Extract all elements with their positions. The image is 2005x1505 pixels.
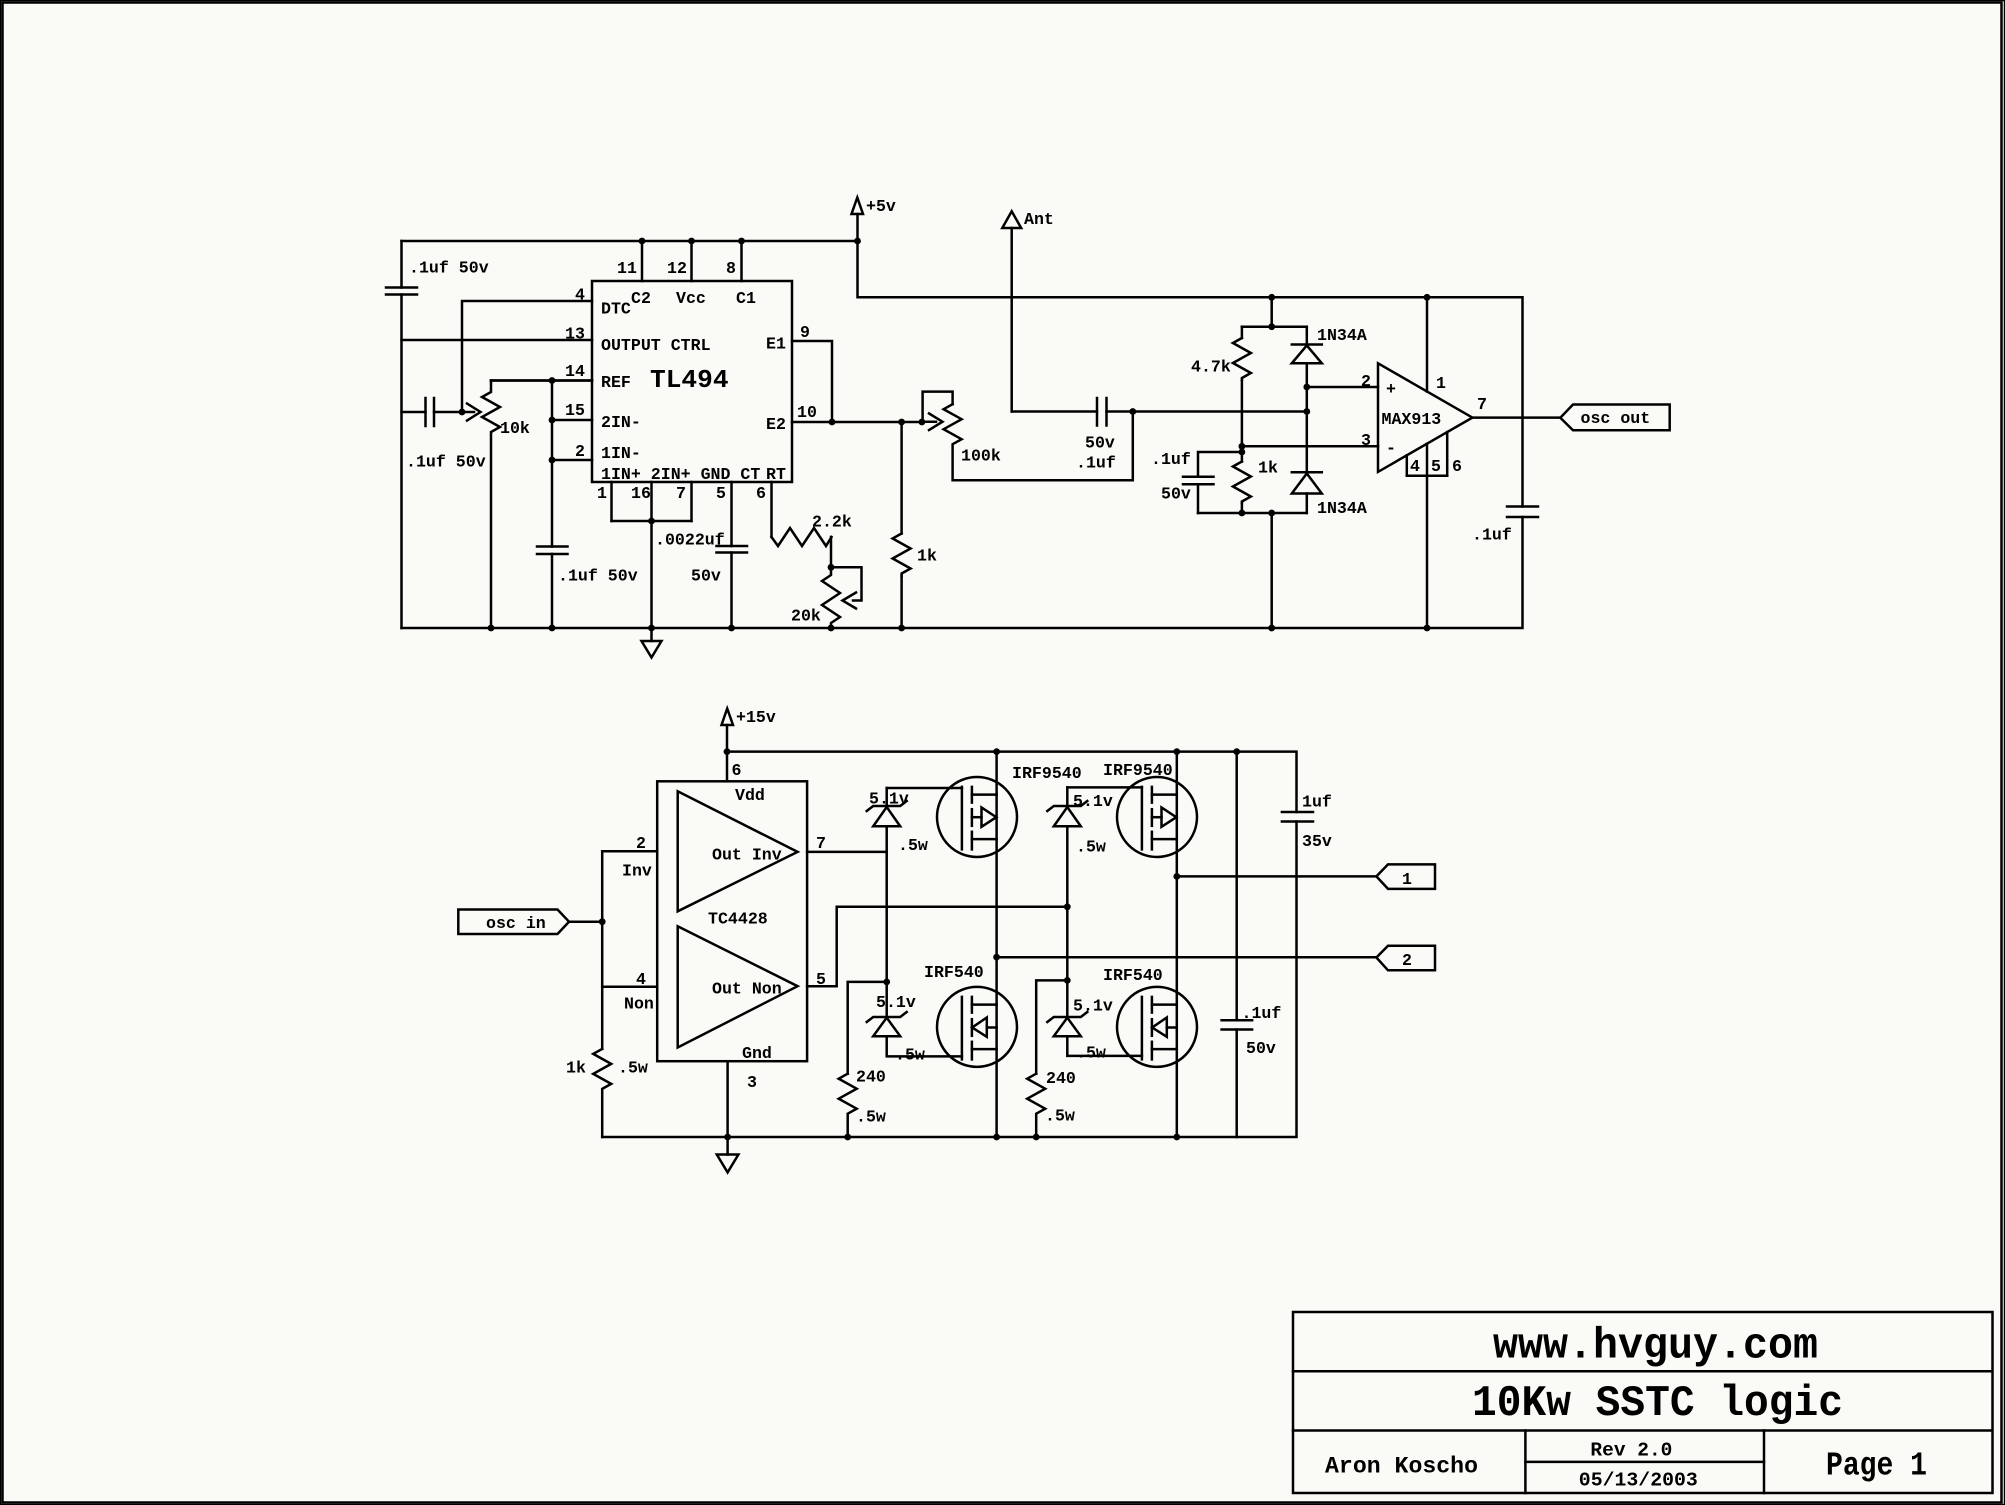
svg-text:Vcc: Vcc [676, 289, 706, 308]
svg-text:TC4428: TC4428 [708, 910, 768, 929]
svg-text:2: 2 [575, 442, 585, 461]
svg-text:50v: 50v [1085, 434, 1115, 453]
svg-text:1k: 1k [566, 1059, 586, 1078]
capacitor C8 1uf 35v [1282, 793, 1332, 852]
wire antenna line [1010, 228, 1013, 412]
svg-text:3: 3 [1361, 431, 1371, 450]
svg-text:.1uf 50v: .1uf 50v [409, 259, 489, 278]
op-amp U2 MAX913 comparator [1378, 363, 1472, 472]
svg-text:osc in: osc in [486, 914, 546, 933]
svg-text:4: 4 [636, 970, 646, 989]
svg-text:5.1v: 5.1v [1073, 792, 1113, 811]
svg-text:9: 9 [800, 323, 810, 342]
resistor R9 240 .5w [839, 982, 887, 1137]
svg-text:.0022uf: .0022uf [655, 531, 725, 550]
svg-text:4.7k: 4.7k [1191, 358, 1231, 377]
zener diode Z2 5.1v .5w [867, 982, 962, 1065]
svg-text:.5w: .5w [898, 836, 928, 855]
svg-text:13: 13 [565, 325, 585, 344]
svg-text:05/13/2003: 05/13/2003 [1579, 1470, 1698, 1492]
svg-text:1: 1 [597, 484, 607, 503]
svg-text:4: 4 [1410, 457, 1420, 476]
svg-text:5.1v: 5.1v [1073, 997, 1113, 1016]
svg-text:2IN-: 2IN- [601, 413, 641, 432]
pin 15 wire 2IN- [552, 419, 592, 422]
svg-text:+5v: +5v [866, 197, 896, 216]
svg-text:Vdd: Vdd [735, 786, 765, 805]
node REF column junctions [549, 377, 556, 384]
svg-text:+: + [1386, 380, 1396, 399]
svg-text:6: 6 [756, 484, 766, 503]
svg-text:Gnd: Gnd [742, 1044, 772, 1063]
svg-text:Rev 2.0: Rev 2.0 [1590, 1440, 1672, 1462]
svg-text:-: - [1386, 439, 1396, 458]
svg-text:1N34A: 1N34A [1317, 499, 1367, 518]
svg-text:15: 15 [565, 401, 585, 420]
svg-text:14: 14 [565, 362, 585, 381]
svg-text:4: 4 [575, 286, 585, 305]
wire left gate column [883, 788, 962, 985]
wire comparator input sub-rail [1242, 294, 1431, 330]
node osc out flag [1560, 405, 1669, 431]
pin 2 wire 1IN- [552, 459, 592, 462]
svg-text:5: 5 [716, 484, 726, 503]
svg-text:240: 240 [1046, 1069, 1076, 1088]
svg-text:3: 3 [747, 1073, 757, 1092]
pins 4,5,6 wires (gnd) [1407, 432, 1462, 628]
power +15v symbol [722, 708, 776, 752]
wire comparator + input (pin 2) [1307, 386, 1378, 389]
resistor R10 240 .5w [1027, 980, 1076, 1137]
capacitor C2 .1uf 50v (series to pot) [402, 398, 486, 472]
svg-text:Non: Non [624, 995, 654, 1014]
power +5v symbol [852, 197, 896, 241]
capacitor C5 .1uf 50v (series antenna) [1076, 398, 1307, 473]
svg-text:.5w: .5w [618, 1059, 648, 1078]
potentiometer R3 20k [791, 564, 862, 628]
transistor Q1 IRF9540 (upper left) [937, 764, 1082, 857]
IC U3 TC4428 box [657, 781, 807, 1063]
svg-text:5: 5 [1431, 457, 1441, 476]
transistor Q3 IRF9540 (upper right) [1103, 761, 1197, 857]
wire +5v top rail [402, 240, 858, 243]
pin 10 wire E2 [792, 421, 922, 424]
svg-text:E1: E1 [766, 335, 786, 354]
pin 11 stub [641, 241, 644, 281]
svg-text:.1uf 50v: .1uf 50v [558, 567, 638, 586]
pin 8 stub [740, 241, 743, 281]
resistor R6 4.7k [1191, 327, 1251, 447]
capacitor C1 .1uf 50v (top left) [386, 241, 489, 628]
svg-text:1IN-: 1IN- [601, 444, 641, 463]
pin 7 output wire [1472, 416, 1560, 419]
svg-text:1: 1 [1436, 374, 1446, 393]
wire bottom rail (top circuit) [402, 517, 1523, 628]
pin 4 wire Non [602, 986, 657, 989]
wire +15v rail [727, 752, 1297, 812]
svg-text:1: 1 [1402, 870, 1412, 889]
svg-text:1k: 1k [917, 547, 937, 566]
buffer A (Out Inv) [678, 791, 798, 911]
svg-text:5.1v: 5.1v [869, 790, 909, 809]
svg-text:100k: 100k [961, 447, 1001, 466]
pin 7 wire Out Inv [807, 851, 887, 854]
svg-text:50v: 50v [1246, 1039, 1276, 1058]
svg-text:Out Inv: Out Inv [712, 846, 782, 865]
svg-text:5.1v: 5.1v [876, 993, 916, 1012]
wire right half-bridge trunk [1176, 752, 1179, 1137]
zener diode Z3 5.1v .5w [1047, 792, 1113, 857]
buffer B (Out Non) [678, 926, 798, 1047]
svg-text:7: 7 [816, 834, 826, 853]
ground symbol (bottom circuit) [717, 1137, 739, 1172]
svg-text:.1uf: .1uf [1151, 450, 1191, 469]
pin 13 wire OUTPUT CTRL [402, 339, 593, 342]
svg-text:50v: 50v [691, 567, 721, 586]
svg-text:IRF9540: IRF9540 [1103, 761, 1173, 780]
svg-text:IRF540: IRF540 [924, 963, 984, 982]
svg-text:RT: RT [766, 465, 786, 484]
svg-text:.5w: .5w [1076, 1044, 1106, 1063]
wire output 2 [997, 956, 1377, 959]
potentiometer R5 100k [922, 392, 1133, 481]
svg-text:.1uf: .1uf [1076, 454, 1116, 473]
node output flag 2 [1376, 946, 1435, 971]
capacitor C4 .0022uf 50v (CT) [655, 482, 747, 628]
wire pins 1,16,7 tie [612, 482, 692, 628]
diode D2 1N34A (lower) [1292, 412, 1367, 519]
svg-text:www.hvguy.com: www.hvguy.com [1493, 1322, 1818, 1372]
svg-text:.5w: .5w [895, 1046, 925, 1065]
svg-text:6: 6 [732, 761, 742, 780]
svg-text:IRF540: IRF540 [1103, 966, 1163, 985]
potentiometer R1 10k [462, 381, 592, 629]
wire comparator - input (pin 3) [1242, 445, 1378, 448]
svg-text:Aron Koscho: Aron Koscho [1325, 1454, 1478, 1480]
node output flag 1 [1376, 864, 1435, 889]
svg-text:1IN+ 2IN+ GND CT: 1IN+ 2IN+ GND CT [601, 465, 760, 484]
svg-text:20k: 20k [791, 607, 821, 626]
svg-text:IRF9540: IRF9540 [1012, 764, 1082, 783]
svg-text:OUTPUT CTRL: OUTPUT CTRL [601, 336, 711, 355]
svg-text:MAX913: MAX913 [1382, 410, 1442, 429]
wire right gate column [1064, 787, 1142, 983]
pin 9 wire E1 [792, 341, 832, 422]
wire input column [601, 851, 604, 1049]
node pin4/cap2/wiper junction [459, 409, 466, 416]
svg-text:DTC: DTC [601, 300, 631, 319]
svg-text:Page 1: Page 1 [1826, 1448, 1927, 1485]
pin 2 wire Inv [602, 850, 657, 853]
wire +5v branch to comparator [858, 241, 1523, 507]
node diode/+input junction [1303, 384, 1310, 391]
svg-text:2.2k: 2.2k [812, 513, 852, 532]
pin 1 wire (V+) [1426, 297, 1429, 391]
pin 14 wire REF [491, 379, 592, 382]
svg-text:5: 5 [816, 970, 826, 989]
svg-text:.5w: .5w [1045, 1107, 1075, 1126]
resistor R4 1k [893, 422, 937, 628]
svg-text:7: 7 [1477, 395, 1487, 414]
transistor Q4 IRF540 (lower right) [1103, 966, 1197, 1067]
wire output 1 [1177, 875, 1377, 878]
capacitor C3 .1uf 50v (REF bypass) [537, 381, 638, 629]
svg-text:TL494: TL494 [650, 365, 729, 395]
resistor R2 2.2k (RT) [772, 482, 852, 567]
svg-text:11: 11 [617, 259, 637, 278]
svg-text:C1: C1 [736, 289, 756, 308]
svg-text:6: 6 [1452, 457, 1462, 476]
svg-text:C2: C2 [631, 289, 651, 308]
node top rail junctions [639, 238, 646, 245]
svg-text:2: 2 [1361, 372, 1371, 391]
svg-text:osc out: osc out [1581, 409, 1651, 428]
svg-text:10: 10 [797, 403, 817, 422]
svg-text:35v: 35v [1302, 832, 1332, 851]
svg-text:1uf: 1uf [1302, 793, 1332, 812]
node osc in flag [458, 910, 602, 935]
svg-text:E2: E2 [766, 415, 786, 434]
svg-text:50v: 50v [1161, 485, 1191, 504]
pin 3 stub [726, 1061, 729, 1137]
svg-text:1N34A: 1N34A [1317, 326, 1367, 345]
svg-text:8: 8 [726, 259, 736, 278]
resistor R8 1k .5w [566, 1049, 648, 1137]
zener diode Z1 5.1v .5w [867, 790, 928, 856]
capacitor C9 .1uf 50v [1222, 752, 1282, 1137]
svg-text:+15v: +15v [736, 708, 776, 727]
wire bottom rail (bottom circuit) [602, 822, 1296, 1138]
pin 6 stub [726, 752, 729, 782]
capacitor C7 .1uf (output bypass) [1472, 507, 1538, 545]
pin 12 stub [690, 241, 693, 281]
svg-text:12: 12 [667, 259, 687, 278]
svg-text:10Kw SSTC logic: 10Kw SSTC logic [1472, 1379, 1843, 1429]
svg-text:10k: 10k [500, 419, 530, 438]
title block frame [1293, 1312, 1993, 1493]
svg-text:.1uf: .1uf [1472, 526, 1512, 545]
transistor Q2 IRF540 (lower left) [924, 963, 1017, 1067]
svg-text:2: 2 [636, 834, 646, 853]
diode D1 1N34A (upper) [1292, 326, 1367, 412]
IC U1 TL494 box [592, 281, 792, 484]
svg-text:.5w: .5w [856, 1108, 886, 1127]
svg-text:.1uf: .1uf [1242, 1004, 1282, 1023]
svg-text:REF: REF [601, 373, 631, 392]
resistor R7 1k (comparator) [1233, 452, 1278, 513]
svg-text:Inv: Inv [622, 862, 652, 881]
zener diode Z4 5.1v .5w [1047, 980, 1142, 1062]
ground symbol (top circuit) [642, 628, 662, 658]
svg-text:Out Non: Out Non [712, 980, 782, 999]
svg-text:240: 240 [856, 1068, 886, 1087]
svg-text:Ant: Ant [1024, 210, 1054, 229]
svg-text:16: 16 [631, 484, 651, 503]
pin 5 wire Out Non [807, 907, 1067, 986]
svg-text:.1uf 50v: .1uf 50v [406, 453, 486, 472]
svg-text:1k: 1k [1258, 459, 1278, 478]
svg-text:7: 7 [676, 484, 686, 503]
wire diode bottom sub-rail [1198, 510, 1307, 628]
pin 4 wire DTC [462, 301, 592, 412]
svg-text:.5w: .5w [1076, 838, 1106, 857]
svg-text:2: 2 [1402, 951, 1412, 970]
capacitor C6 .1uf 50v (comparator input) [1151, 450, 1242, 513]
wire left half-bridge trunk [995, 752, 998, 1137]
power Ant symbol [1002, 210, 1054, 229]
